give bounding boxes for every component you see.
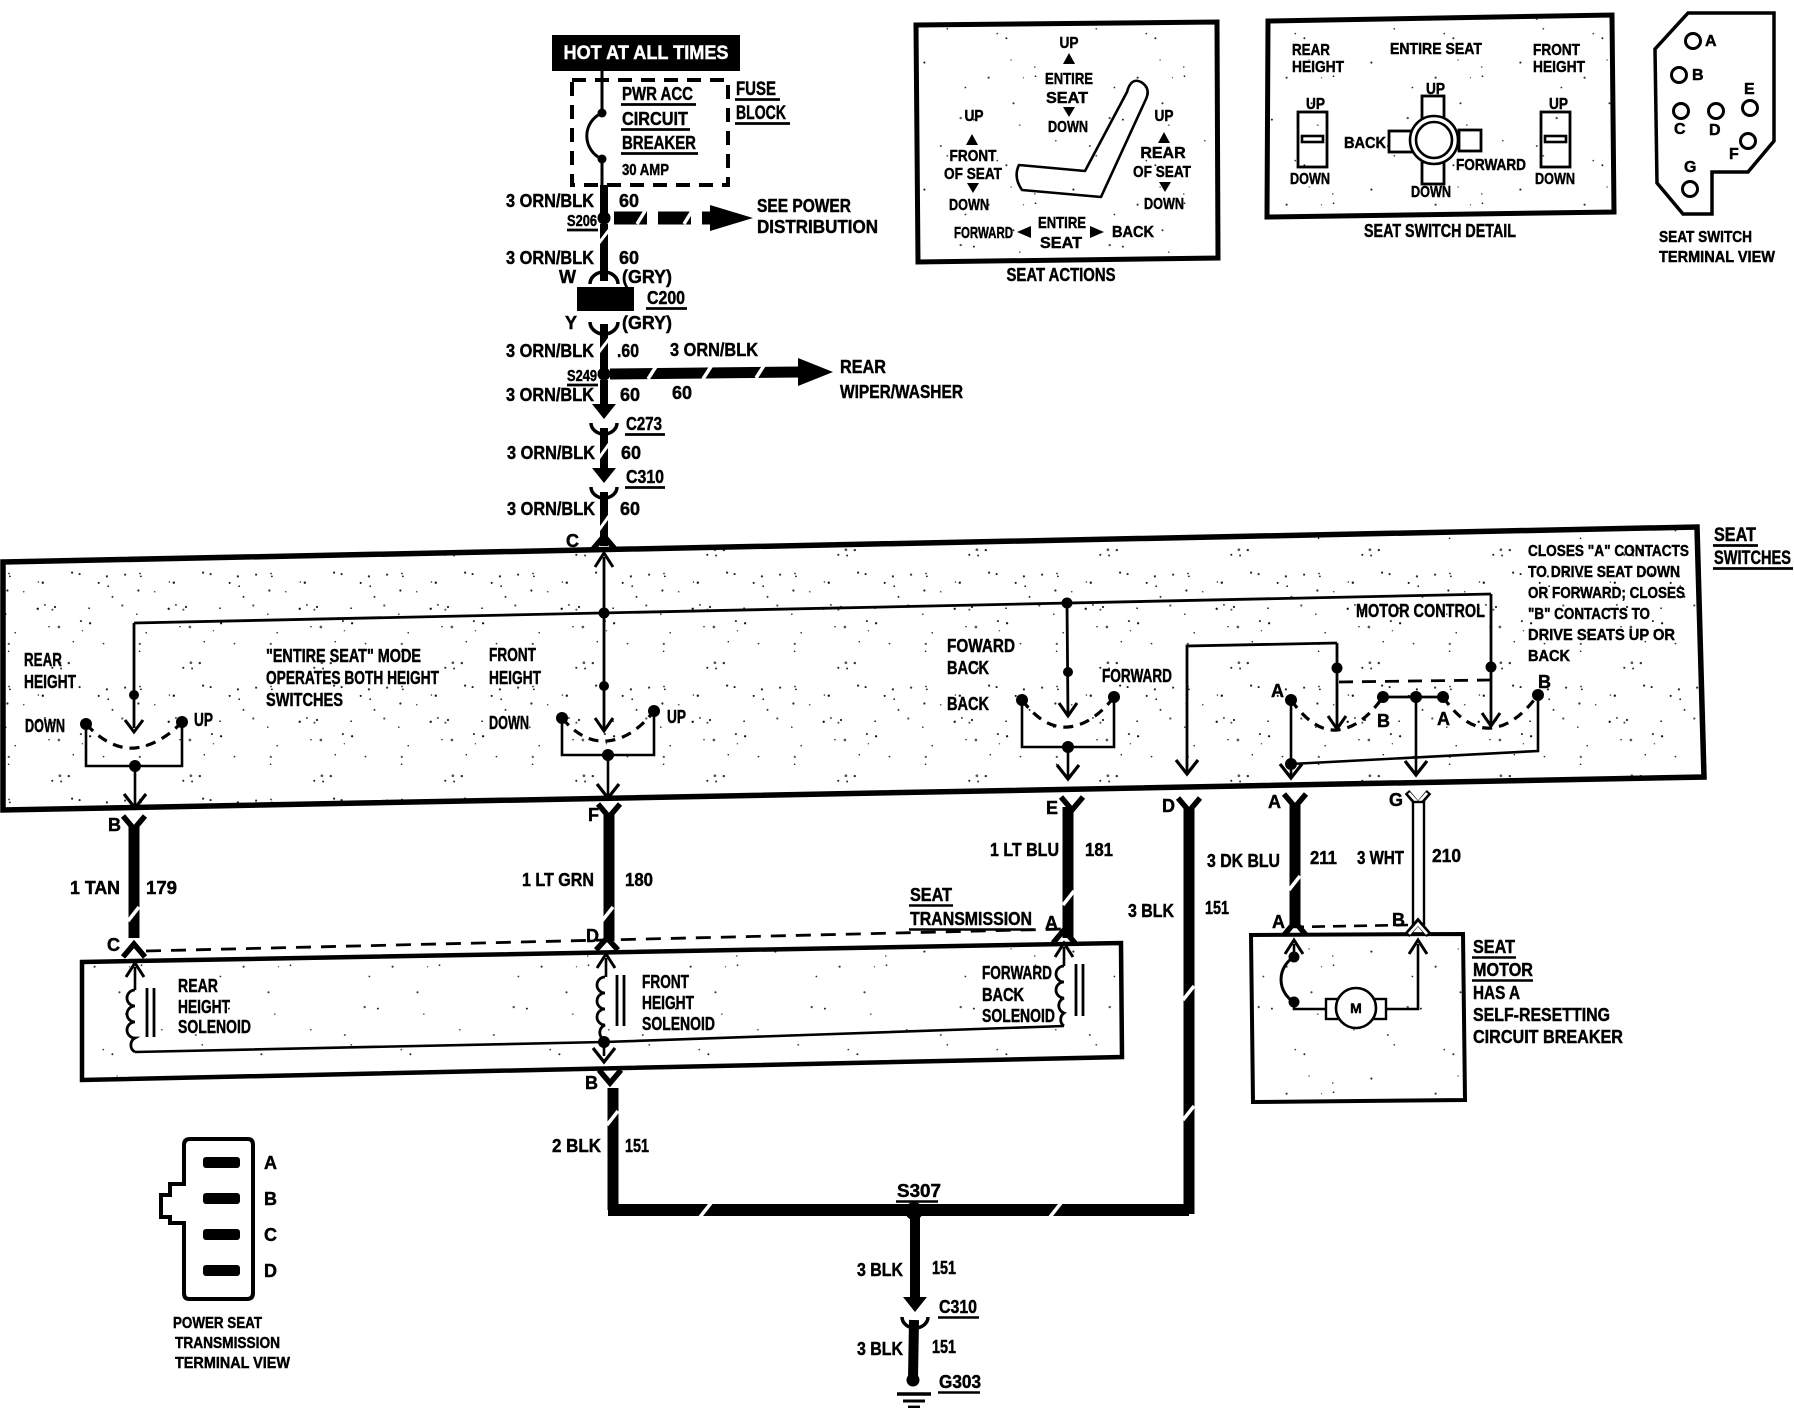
svg-text:B: B [108, 815, 121, 835]
svg-text:UP: UP [194, 710, 213, 730]
svg-text:181: 181 [1085, 840, 1113, 860]
svg-text:B: B [585, 1073, 598, 1093]
svg-text:MOTOR: MOTOR [1473, 960, 1533, 980]
svg-text:A: A [264, 1153, 277, 1173]
connector C310 (ground leg) [902, 1297, 928, 1328]
label FORWARD ENTIRE SEAT BACK (bottom) [954, 215, 1154, 252]
svg-text:OF SEAT: OF SEAT [1133, 164, 1191, 181]
svg-text:60: 60 [620, 385, 640, 405]
svg-text:C: C [107, 935, 120, 955]
svg-text:DISTRIBUTION: DISTRIBUTION [757, 217, 878, 237]
svg-text:F: F [588, 805, 599, 825]
splice S307 [896, 1181, 941, 1220]
svg-text:SWITCHES: SWITCHES [266, 690, 343, 710]
svg-text:SEAT SWITCH: SEAT SWITCH [1659, 229, 1752, 246]
svg-text:180: 180 [625, 870, 653, 890]
node on bus at forward/back feed [1062, 598, 1073, 609]
seat switches box [3, 527, 1704, 810]
pin A entry arrow [1055, 943, 1073, 966]
svg-text:PWR ACC: PWR ACC [622, 84, 693, 104]
svg-text:C310: C310 [939, 1297, 977, 1317]
splice S206 [567, 212, 611, 231]
svg-text:SEAT: SEAT [1040, 235, 1082, 252]
label HOT AT ALL TIMES [552, 35, 740, 71]
svg-text:UP: UP [1155, 108, 1174, 125]
svg-text:FORWARD: FORWARD [1456, 157, 1526, 174]
label SEAT ACTIONS [1007, 265, 1116, 285]
pin C terminal (transmission) [107, 935, 145, 957]
svg-text:FRONT: FRONT [1533, 42, 1580, 59]
svg-text:FORWARD: FORWARD [954, 225, 1013, 242]
label REAR WIPER/WASHER [840, 357, 963, 402]
svg-text:S307: S307 [897, 1181, 941, 1201]
svg-text:SOLENOID: SOLENOID [642, 1014, 715, 1034]
svg-text:151: 151 [932, 1258, 956, 1278]
svg-text:1 TAN: 1 TAN [70, 878, 120, 898]
svg-text:SEAT: SEAT [1473, 937, 1515, 957]
rear height rocker switch [1290, 96, 1330, 188]
front height solenoid coil [597, 975, 624, 1040]
wire 2 BLK 151 [607, 1088, 618, 1210]
label FUSE BLOCK [735, 79, 790, 124]
svg-text:3 DK BLU: 3 DK BLU [1207, 851, 1280, 871]
svg-text:3 ORN/BLK: 3 ORN/BLK [670, 340, 758, 360]
label G303 [938, 1372, 981, 1393]
svg-text:POWER SEAT: POWER SEAT [173, 1315, 262, 1332]
svg-text:G: G [1684, 159, 1696, 176]
label FRONT HEIGHT SOLENOID [642, 972, 715, 1034]
motor control left switch feed [1328, 643, 1346, 730]
svg-text:G: G [1389, 790, 1403, 810]
front height switch feed [595, 613, 613, 731]
svg-text:G303: G303 [939, 1372, 981, 1392]
front height rocker switch [1535, 96, 1575, 188]
motor control right switch contacts A-B [1437, 672, 1551, 729]
svg-text:UP: UP [1306, 96, 1325, 113]
svg-text:UP: UP [965, 108, 984, 125]
motor M [1326, 988, 1386, 1028]
label SEAT MOTOR HAS A SELF-RESETTING CIRCUIT BREAKER [1472, 937, 1623, 1047]
svg-text:UP: UP [1060, 35, 1079, 52]
seat actions box [916, 22, 1218, 262]
rear height switch feed [125, 690, 143, 732]
labels terminal view pins A B C D E F G [1674, 33, 1755, 176]
label 3 ORN/BLK 60 (above C200) [506, 248, 639, 268]
ground G303 [897, 1374, 931, 1408]
label 3 ORN/BLK 60 (above C310) [507, 443, 641, 463]
svg-text:DOWN: DOWN [1535, 171, 1575, 188]
motor control feed line from D pin [1176, 643, 1337, 774]
svg-text:SEAT: SEAT [1046, 90, 1088, 107]
svg-text:HAS A: HAS A [1473, 983, 1520, 1003]
label pin C [566, 531, 579, 551]
labels power seat transmission pins A B C D [264, 1153, 277, 1281]
svg-text:30 AMP: 30 AMP [622, 162, 669, 179]
wire C273 to C310 [599, 428, 609, 471]
label SEE POWER DISTRIBUTION [757, 196, 878, 237]
svg-text:3 ORN/BLK: 3 ORN/BLK [507, 499, 595, 519]
svg-text:DOWN: DOWN [1048, 119, 1088, 136]
svg-text:2 BLK: 2 BLK [552, 1136, 601, 1156]
svg-text:3 BLK: 3 BLK [857, 1260, 903, 1280]
pin C terminal (seat switches) [593, 536, 615, 549]
svg-text:Y: Y [565, 313, 577, 333]
seat switch terminal view connector [1655, 13, 1774, 214]
svg-text:60: 60 [621, 443, 641, 463]
svg-text:ENTIRE: ENTIRE [1038, 215, 1086, 232]
dashed connector line between motor pins [1291, 925, 1408, 927]
label C273 [625, 414, 665, 435]
pin A terminal [1268, 792, 1306, 812]
wire C310 to G303 [913, 1320, 914, 1378]
svg-text:D: D [586, 926, 599, 946]
label 3 BLK 151 (above C310) [857, 1258, 956, 1280]
label POWER SEAT TRANSMISSION TERMINAL VIEW [173, 1315, 291, 1372]
pin A terminal (seat motor) [1272, 912, 1306, 935]
svg-text:D: D [1162, 796, 1175, 816]
svg-text:DRIVE SEATS UP OR: DRIVE SEATS UP OR [1528, 627, 1675, 644]
svg-text:FOWARD: FOWARD [947, 636, 1015, 656]
svg-text:"B" CONTACTS TO: "B" CONTACTS TO [1528, 606, 1650, 623]
fuse block dashed box [572, 80, 728, 185]
svg-text:CLOSES "A" CONTACTS: CLOSES "A" CONTACTS [1528, 543, 1689, 560]
label Y (GRY) [565, 313, 672, 333]
svg-text:DOWN: DOWN [1290, 171, 1330, 188]
svg-text:D: D [264, 1261, 277, 1281]
label MOTOR CONTROL [1356, 601, 1485, 621]
bus wire (inner box top edge) [134, 594, 1491, 695]
svg-text:REAR: REAR [24, 650, 62, 670]
link between B and A contacts with node to pin G [1383, 691, 1443, 775]
label 3 ORN/BLK (branch wire) [670, 340, 758, 360]
svg-text:3 BLK: 3 BLK [1128, 901, 1174, 921]
svg-text:3 WHT: 3 WHT [1357, 848, 1404, 868]
svg-text:HEIGHT: HEIGHT [178, 997, 230, 1017]
svg-text:REAR: REAR [178, 976, 218, 996]
svg-text:DOWN: DOWN [489, 713, 529, 733]
mechanical coupling dashed link [1339, 680, 1490, 682]
svg-text:SEAT SWITCH DETAIL: SEAT SWITCH DETAIL [1364, 221, 1516, 241]
solenoid return bus line [135, 1026, 1064, 1052]
seat transmission box [82, 943, 1122, 1080]
label 60 (branch wire) [672, 383, 692, 403]
node at front solenoid return [598, 1036, 610, 1048]
label UP ENTIRE SEAT DOWN (top center) [1045, 35, 1093, 136]
label 3 WHT 210 [1357, 846, 1461, 868]
svg-text:179: 179 [146, 878, 177, 898]
output arrow to pin B (transmission) [593, 1042, 615, 1062]
label 3 ORN/BLK 60 (above pin C) [507, 499, 640, 519]
label 3 ORN/BLK 60 (above C273) [506, 385, 640, 405]
svg-text:ENTIRE: ENTIRE [1045, 71, 1093, 88]
svg-text:DOWN: DOWN [1144, 196, 1184, 213]
label 1 LT GRN 180 [522, 870, 653, 890]
svg-text:TRANSMISSION: TRANSMISSION [910, 909, 1032, 929]
pin G terminal (hollow) [1389, 790, 1429, 810]
motor pin B wire [1386, 940, 1427, 1009]
svg-text:M: M [1350, 1000, 1362, 1016]
label UP REAR OF SEAT DOWN (right) [1133, 108, 1191, 213]
splice S249 [567, 368, 611, 386]
svg-text:3 ORN/BLK: 3 ORN/BLK [506, 385, 594, 405]
svg-text:B: B [1538, 672, 1551, 692]
connector C310 [591, 468, 617, 498]
svg-text:DOWN: DOWN [949, 197, 989, 214]
svg-text:151: 151 [932, 1337, 956, 1357]
svg-text:A: A [1045, 913, 1058, 933]
wire fuse block to S206 [600, 185, 608, 218]
svg-text:151: 151 [625, 1136, 649, 1156]
svg-text:UP: UP [1549, 96, 1568, 113]
connector C273 [591, 404, 617, 434]
svg-text:F: F [1729, 146, 1739, 163]
svg-text:1 LT BLU: 1 LT BLU [990, 840, 1059, 860]
label ENTIRE SEAT MODE note [266, 646, 439, 710]
svg-text:B: B [264, 1189, 277, 1209]
svg-text:TRANSMISSION: TRANSMISSION [175, 1335, 280, 1352]
svg-text:HEIGHT: HEIGHT [24, 672, 76, 692]
svg-text:HEIGHT: HEIGHT [642, 993, 694, 1013]
wire S206 to C200 [599, 224, 609, 281]
connector C200 [577, 272, 634, 334]
svg-text:FRONT: FRONT [642, 972, 689, 992]
svg-text:(GRY): (GRY) [622, 267, 672, 287]
svg-text:60: 60 [619, 248, 639, 268]
circuit breaker PWR ACC 30A symbol [587, 109, 607, 186]
front height output to pin F [597, 755, 619, 798]
wire 3 BLK 151 (long drop) [1183, 808, 1194, 1214]
svg-text:UP: UP [667, 707, 686, 727]
svg-text:BACK: BACK [1344, 135, 1386, 152]
svg-text:BACK: BACK [982, 985, 1024, 1005]
svg-text:TERMINAL VIEW: TERMINAL VIEW [175, 1355, 291, 1372]
label 3 BLK 151 (above G303) [857, 1337, 956, 1359]
svg-text:3 ORN/BLK: 3 ORN/BLK [506, 341, 594, 361]
label C200 [646, 288, 687, 309]
svg-text:FORWARD: FORWARD [982, 963, 1052, 983]
pin F terminal [588, 804, 620, 825]
svg-text:E: E [1744, 81, 1755, 98]
svg-text:HEIGHT: HEIGHT [489, 668, 541, 688]
label 3 BLK 151 [1128, 898, 1229, 921]
label FOWARD BACK (switch) [947, 636, 1015, 678]
svg-text:ENTIRE SEAT: ENTIRE SEAT [1390, 41, 1482, 58]
svg-text:SELF-RESETTING: SELF-RESETTING [1473, 1005, 1610, 1025]
svg-text:S249: S249 [567, 368, 597, 385]
svg-text:SWITCHES: SWITCHES [1714, 548, 1791, 569]
motor control left switch contacts A-B [1271, 681, 1390, 731]
svg-text:A: A [1271, 681, 1284, 701]
svg-text:D: D [1709, 122, 1721, 139]
label 3 ORN/BLK 60 (above S206) [506, 191, 639, 211]
svg-text:DOWN: DOWN [1411, 184, 1451, 201]
svg-text:(GRY): (GRY) [622, 313, 672, 333]
note CLOSES A CONTACTS text [1528, 543, 1689, 665]
svg-text:BREAKER: BREAKER [622, 133, 696, 153]
label UP FRONT OF SEAT DOWN (left) [944, 108, 1002, 214]
svg-text:FRONT: FRONT [489, 645, 536, 665]
front height switch contacts and wiper [489, 705, 686, 761]
svg-text:B: B [1377, 711, 1390, 731]
node on bus at C wire [599, 608, 610, 619]
svg-text:210: 210 [1432, 846, 1461, 866]
svg-text:BACK: BACK [1112, 224, 1154, 241]
wire S307 to C310 [910, 1216, 920, 1300]
svg-text:151: 151 [1205, 898, 1229, 918]
pin D terminal (transmission) [586, 926, 618, 950]
svg-text:3 ORN/BLK: 3 ORN/BLK [507, 443, 595, 463]
svg-text:BACK: BACK [1528, 648, 1570, 665]
power seat transmission terminal view connector [161, 1139, 253, 1299]
svg-text:OR FORWARD; CLOSES: OR FORWARD; CLOSES [1528, 585, 1685, 602]
label W (GRY) [559, 267, 672, 287]
seat motor box [1251, 934, 1465, 1102]
wire pin C entry arrow [595, 553, 613, 613]
svg-text:HEIGHT: HEIGHT [1292, 59, 1344, 76]
label C310 [938, 1297, 979, 1318]
svg-text:WIPER/WASHER: WIPER/WASHER [840, 382, 963, 402]
pin B terminal (seat motor, hollow) [1392, 910, 1429, 935]
connector dashed line above seat transmission [146, 929, 1064, 951]
label SEAT TRANSMISSION [909, 885, 1033, 930]
label SEAT SWITCHES [1713, 525, 1793, 569]
label 2 BLK 151 [552, 1136, 649, 1156]
svg-text:C310: C310 [626, 467, 664, 487]
label 3 ORN/BLK .60 (above S249) [506, 341, 639, 361]
svg-text:FUSE: FUSE [736, 79, 776, 100]
svg-text:60: 60 [672, 383, 692, 403]
pin A terminal (transmission) [1045, 913, 1075, 943]
svg-text:HOT AT ALL TIMES: HOT AT ALL TIMES [564, 43, 729, 64]
svg-text:A: A [1272, 912, 1285, 932]
entire seat joystick (4-way) [1344, 81, 1526, 201]
label FRONT HEIGHT [1533, 42, 1585, 76]
pin B terminal [108, 815, 145, 835]
svg-text:S206: S206 [567, 213, 597, 230]
dashed arrow to SEE POWER DISTRIBUTION [614, 205, 753, 231]
pin E terminal [1046, 797, 1083, 818]
svg-text:211: 211 [1310, 848, 1337, 868]
motor circuit breaker (self-resetting) [1281, 952, 1330, 1010]
link A contact and B contact to pin A [1280, 695, 1538, 778]
label SEAT SWITCH TERMINAL VIEW [1659, 229, 1776, 266]
svg-text:C: C [1674, 121, 1686, 138]
svg-text:"ENTIRE SEAT" MODE: "ENTIRE SEAT" MODE [266, 646, 421, 666]
svg-text:BACK: BACK [947, 658, 989, 678]
svg-text:SOLENOID: SOLENOID [982, 1006, 1055, 1026]
svg-text:FRONT: FRONT [950, 148, 997, 165]
svg-text:SEE POWER: SEE POWER [757, 196, 851, 216]
forward/back output to pin E [1057, 747, 1079, 779]
svg-text:W: W [559, 267, 576, 287]
pin D terminal [1162, 796, 1200, 816]
svg-text:60: 60 [620, 499, 640, 519]
wire C310 to seat switches box pin C [599, 492, 609, 546]
svg-text:TERMINAL VIEW: TERMINAL VIEW [1659, 249, 1776, 266]
label 1 LT BLU 181 [990, 840, 1113, 860]
svg-text:MOTOR CONTROL: MOTOR CONTROL [1356, 601, 1485, 621]
label SEAT SWITCH DETAIL [1364, 221, 1516, 241]
svg-text:A: A [1705, 33, 1717, 50]
ground bus wire to S307 and pin D drop [608, 1203, 1189, 1217]
rear height solenoid coil [127, 988, 154, 1052]
svg-text:REAR: REAR [840, 357, 886, 377]
svg-text:C200: C200 [647, 288, 685, 308]
forward/back switch feed [1059, 603, 1077, 716]
label C310 [625, 467, 665, 488]
svg-text:CIRCUIT BREAKER: CIRCUIT BREAKER [1473, 1027, 1623, 1047]
svg-text:E: E [1046, 798, 1058, 818]
svg-text:REAR: REAR [1292, 42, 1330, 59]
svg-text:SEAT ACTIONS: SEAT ACTIONS [1007, 265, 1116, 285]
wire from hot feed into fuse block [601, 71, 604, 113]
svg-text:TO DRIVE SEAT DOWN: TO DRIVE SEAT DOWN [1528, 564, 1680, 581]
svg-text:3 ORN/BLK: 3 ORN/BLK [506, 191, 594, 211]
forward back solenoid coil [1056, 964, 1083, 1026]
svg-text:SEAT: SEAT [1714, 525, 1756, 546]
svg-text:1 LT GRN: 1 LT GRN [522, 870, 594, 890]
svg-text:OF SEAT: OF SEAT [944, 166, 1002, 183]
wire 3 DK BLU 211 [1289, 804, 1300, 924]
svg-text:A: A [1437, 709, 1450, 729]
svg-text:FORWARD: FORWARD [1102, 666, 1172, 686]
seat switch detail box [1267, 15, 1614, 217]
svg-text:REAR: REAR [1140, 145, 1186, 162]
svg-text:.60: .60 [617, 341, 639, 361]
svg-text:B: B [1692, 67, 1704, 84]
label REAR HEIGHT [1292, 42, 1344, 76]
wire 3 WHT 210 (hollow) [1413, 802, 1424, 924]
svg-text:HEIGHT: HEIGHT [1533, 59, 1585, 76]
pin C entry arrow [126, 963, 144, 990]
svg-text:BLOCK: BLOCK [736, 103, 786, 124]
motor pin A entry arrow [1285, 940, 1303, 957]
svg-text:B: B [1392, 910, 1405, 930]
wire S249 to C273 [600, 380, 608, 407]
svg-text:SOLENOID: SOLENOID [178, 1017, 251, 1037]
wire C200 to S249 [599, 324, 609, 374]
pin B terminal (transmission) [585, 1070, 621, 1093]
motor control right switch feed [1482, 662, 1500, 728]
svg-text:DOWN: DOWN [25, 716, 65, 736]
thick arrow to REAR WIPER/WASHER [610, 358, 833, 386]
wire 1 LT GRN 180 [602, 814, 613, 941]
label FORWARD BACK SOLENOID [982, 963, 1055, 1026]
svg-text:3 ORN/BLK: 3 ORN/BLK [506, 248, 594, 268]
label PWR ACC CIRCUIT BREAKER 30 AMP [621, 84, 698, 179]
label 1 TAN 179 [70, 878, 177, 898]
svg-text:C: C [264, 1225, 277, 1245]
pin D entry arrow [597, 954, 615, 977]
svg-text:OPERATES BOTH HEIGHT: OPERATES BOTH HEIGHT [266, 668, 439, 688]
svg-text:SEAT: SEAT [910, 885, 952, 905]
label REAR HEIGHT SOLENOID [178, 976, 251, 1037]
svg-text:3 BLK: 3 BLK [857, 1339, 903, 1359]
rear height switch contacts and wiper [25, 710, 213, 772]
svg-text:CIRCUIT: CIRCUIT [622, 109, 688, 129]
label 3 DK BLU 211 [1207, 848, 1337, 871]
wire 1 LT BLU 181 [1063, 807, 1074, 938]
svg-text:A: A [1268, 792, 1281, 812]
svg-text:C273: C273 [626, 414, 662, 434]
rear height output to pin B [124, 766, 146, 808]
wire 1 TAN 179 [128, 826, 139, 938]
svg-text:BACK: BACK [947, 694, 989, 714]
svg-text:60: 60 [619, 191, 639, 211]
forward/back switch contacts and wiper [947, 666, 1172, 753]
label FRONT HEIGHT (switch) [489, 645, 541, 688]
label ENTIRE SEAT [1390, 41, 1482, 58]
